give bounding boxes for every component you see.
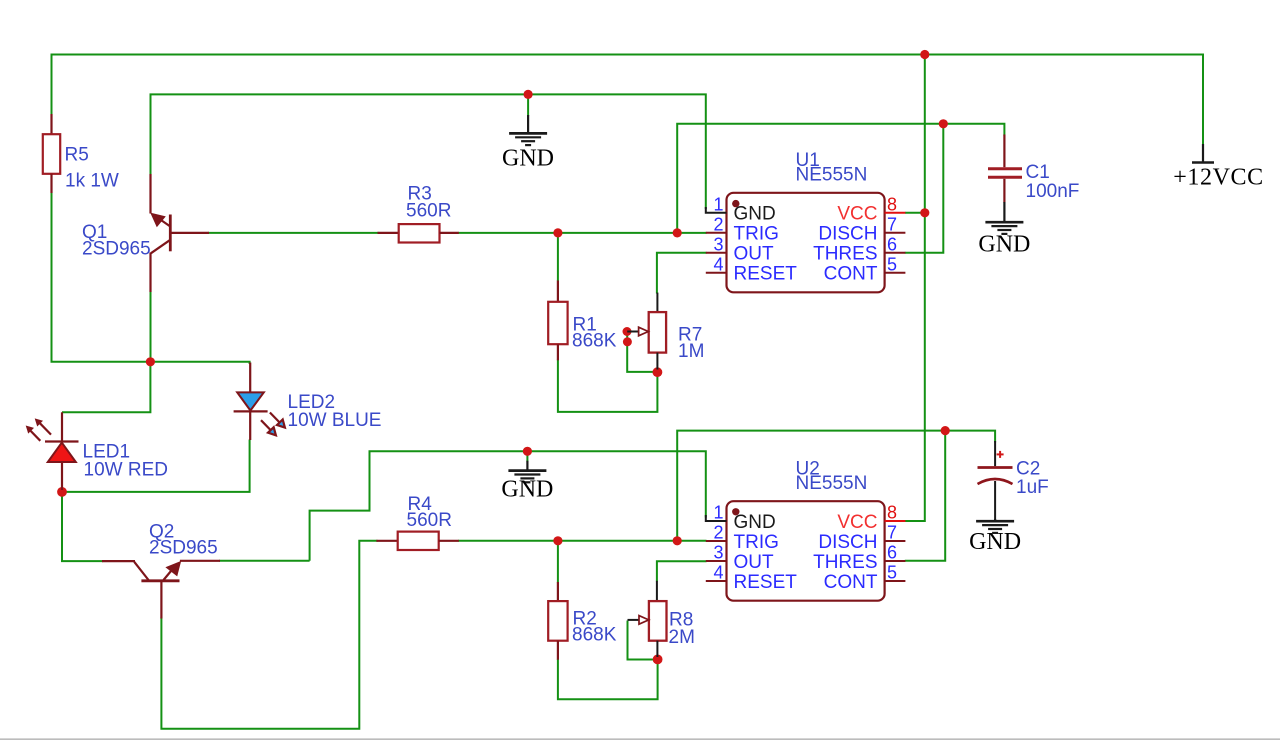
U1 pin 4: [706, 272, 727, 274]
junction node R7 wiper lower: [623, 337, 632, 346]
svg-text:560R: 560R: [406, 201, 451, 222]
svg-text:GND: GND: [734, 512, 776, 533]
svg-text:5: 5: [887, 563, 897, 583]
svg-text:10W RED: 10W RED: [84, 460, 168, 481]
wire R2 bottom loop to R8 bottom: [558, 659, 658, 699]
svg-text:2SD965: 2SD965: [82, 239, 151, 260]
wire Q1 collector to node A: [150, 291, 152, 362]
wire U2 OUT down to R8: [657, 561, 707, 581]
svg-text:2: 2: [713, 214, 723, 234]
junction node R7 wiper upper: [623, 327, 632, 336]
svg-text:TRIG: TRIG: [734, 532, 779, 553]
U2 pin 5: [885, 580, 906, 582]
U2 pin 4: [706, 580, 727, 582]
svg-text:7: 7: [887, 214, 897, 234]
wire R5 bottom to node A: [52, 192, 151, 362]
U2 pin 8: [885, 520, 906, 522]
wire node A down to LED1: [62, 362, 150, 413]
wire GND net U2: Q2 emitter to pin1: [310, 451, 706, 561]
svg-text:868K: 868K: [572, 625, 617, 646]
svg-text:DISCH: DISCH: [818, 224, 877, 245]
wire Q2 emitter lead: [219, 560, 310, 562]
wire R3 to U1 TRIG: [458, 232, 707, 234]
U2 pin 3: [706, 560, 727, 562]
wire Q2 base loop to R4: [161, 541, 377, 729]
wire U1 pin8 to VCC branch: [905, 212, 925, 214]
svg-text:10W BLUE: 10W BLUE: [288, 410, 382, 431]
U1 pin 1: [706, 207, 727, 213]
ground GND3: [508, 461, 546, 483]
svg-text:3: 3: [713, 234, 723, 254]
wire R4 to U2 TRIG: [458, 540, 707, 542]
wire LED bottom rail node B: [62, 440, 250, 492]
wire TRIG1 up and over to C1: [677, 124, 1004, 233]
ground GND1: [509, 115, 547, 145]
transistor Q1: [150, 174, 209, 292]
svg-text:DISCH: DISCH: [818, 532, 877, 553]
junction node R1 top: [553, 228, 562, 237]
svg-text:TRIG: TRIG: [734, 224, 779, 245]
svg-text:8: 8: [887, 503, 897, 523]
junction node GND3: [523, 447, 532, 456]
svg-text:2SD965: 2SD965: [149, 538, 218, 559]
svg-text:VCC: VCC: [837, 512, 877, 533]
IC U2 NE555N: [727, 501, 885, 601]
junction node B: [57, 487, 67, 497]
svg-text:3: 3: [713, 543, 723, 563]
svg-text:1: 1: [713, 194, 723, 214]
wire GND net U1: Q1 emitter to pin1: [151, 94, 706, 209]
svg-text:RESET: RESET: [734, 572, 798, 593]
svg-text:1: 1: [713, 503, 723, 523]
wire R1 bottom loop to R7 bottom: [558, 360, 658, 412]
svg-text:C1: C1: [1026, 162, 1050, 183]
svg-text:RESET: RESET: [734, 264, 798, 285]
wire GND3 symbol stub: [526, 451, 528, 461]
junction node TRIG2/C2: [941, 426, 950, 435]
svg-text:GND: GND: [502, 146, 554, 172]
junction node R7 bottom: [653, 367, 663, 377]
svg-text:GND: GND: [734, 204, 776, 225]
svg-text:4: 4: [713, 254, 723, 274]
svg-text:4: 4: [713, 563, 723, 583]
svg-text:GND: GND: [969, 529, 1021, 555]
wire Q2 collector to LED node B: [62, 492, 103, 561]
wire GND1 symbol stub: [527, 94, 529, 116]
svg-text:CONT: CONT: [824, 572, 878, 593]
junction node TRIG2: [673, 536, 682, 545]
resistor R5: [43, 114, 60, 193]
junction node R2 top: [553, 536, 562, 545]
potentiometer R8: [628, 581, 667, 657]
U2 pin 7: [885, 540, 906, 542]
wire TRIG2 to R2 top: [557, 541, 559, 583]
junction node VCC rail: [920, 50, 929, 59]
transistor Q2: [102, 561, 220, 619]
svg-text:8: 8: [887, 194, 897, 214]
ground GND4: [976, 519, 1014, 533]
capacitor C2: [978, 441, 1013, 520]
svg-text:R5: R5: [65, 145, 89, 166]
svg-text:2M: 2M: [669, 627, 695, 648]
junction node R8 bottom: [653, 655, 663, 665]
svg-text:1M: 1M: [678, 341, 704, 362]
svg-text:GND: GND: [501, 477, 553, 503]
svg-text:OUT: OUT: [734, 244, 775, 265]
svg-text:THRES: THRES: [813, 244, 877, 265]
wire U1 OUT down to R7: [657, 253, 707, 294]
svg-text:NE555N: NE555N: [796, 165, 868, 186]
svg-text:THRES: THRES: [813, 552, 877, 573]
svg-text:NE555N: NE555N: [796, 473, 868, 494]
ground GND2: [985, 202, 1023, 234]
svg-text:2: 2: [713, 523, 723, 543]
wire Q1 base to R3: [208, 232, 379, 234]
junction node U1 VCC pin: [920, 208, 929, 217]
junction node TRIG1: [673, 228, 682, 237]
wire VCC vertical branch to U1/U2 pin 8: [905, 55, 925, 522]
U1 pin 3: [706, 252, 727, 254]
resistor R4: [376, 532, 458, 550]
U2 pin 2: [706, 540, 727, 542]
svg-text:GND: GND: [978, 232, 1030, 258]
wire down to U2 THRES: [905, 431, 945, 561]
U1 pin 6: [885, 252, 906, 254]
svg-text:560R: 560R: [407, 510, 452, 531]
junction node TRIG1/C1: [939, 119, 948, 128]
wire TRIG2 up and over to C2: [677, 431, 995, 541]
svg-text:1k 1W: 1k 1W: [65, 171, 119, 192]
svg-text:100nF: 100nF: [1026, 181, 1080, 202]
resistor R3: [378, 224, 459, 242]
svg-text:CONT: CONT: [824, 264, 878, 285]
LED LED1: [26, 412, 79, 490]
svg-text:5: 5: [887, 254, 897, 274]
U1 pin 5: [885, 272, 906, 274]
junction node GND1: [524, 90, 533, 99]
svg-text:VCC: VCC: [837, 204, 877, 225]
svg-text:6: 6: [887, 234, 897, 254]
svg-text:+12VCC: +12VCC: [1173, 165, 1263, 191]
U1 pin 2: [706, 232, 727, 234]
wire R8 wiper down to junction: [628, 621, 657, 660]
junction node A: [146, 357, 155, 366]
IC U1 NE555N: [727, 193, 885, 292]
svg-text:6: 6: [887, 543, 897, 563]
power flag +12VCC: [1192, 144, 1214, 163]
wire down to U1 THRES: [905, 124, 944, 253]
svg-text:868K: 868K: [572, 331, 617, 352]
wire R7 wiper down to junction: [627, 332, 655, 372]
capacitor C1: [988, 135, 1022, 203]
U1 pin 8: [885, 212, 906, 214]
U1 pin 7: [885, 232, 906, 234]
wire +12V top rail: [52, 55, 1204, 146]
U2 pin 6: [885, 560, 906, 562]
svg-text:OUT: OUT: [734, 552, 775, 573]
resistor R2: [548, 582, 567, 660]
svg-text:7: 7: [887, 523, 897, 543]
svg-text:1uF: 1uF: [1016, 477, 1049, 498]
potentiometer R7: [627, 293, 666, 370]
U2 pin 1: [706, 515, 727, 521]
wire node A to LED2: [150, 362, 249, 364]
LED LED2: [234, 363, 285, 441]
wire TRIG1 to R1 top: [557, 233, 559, 281]
resistor R1: [548, 281, 567, 361]
